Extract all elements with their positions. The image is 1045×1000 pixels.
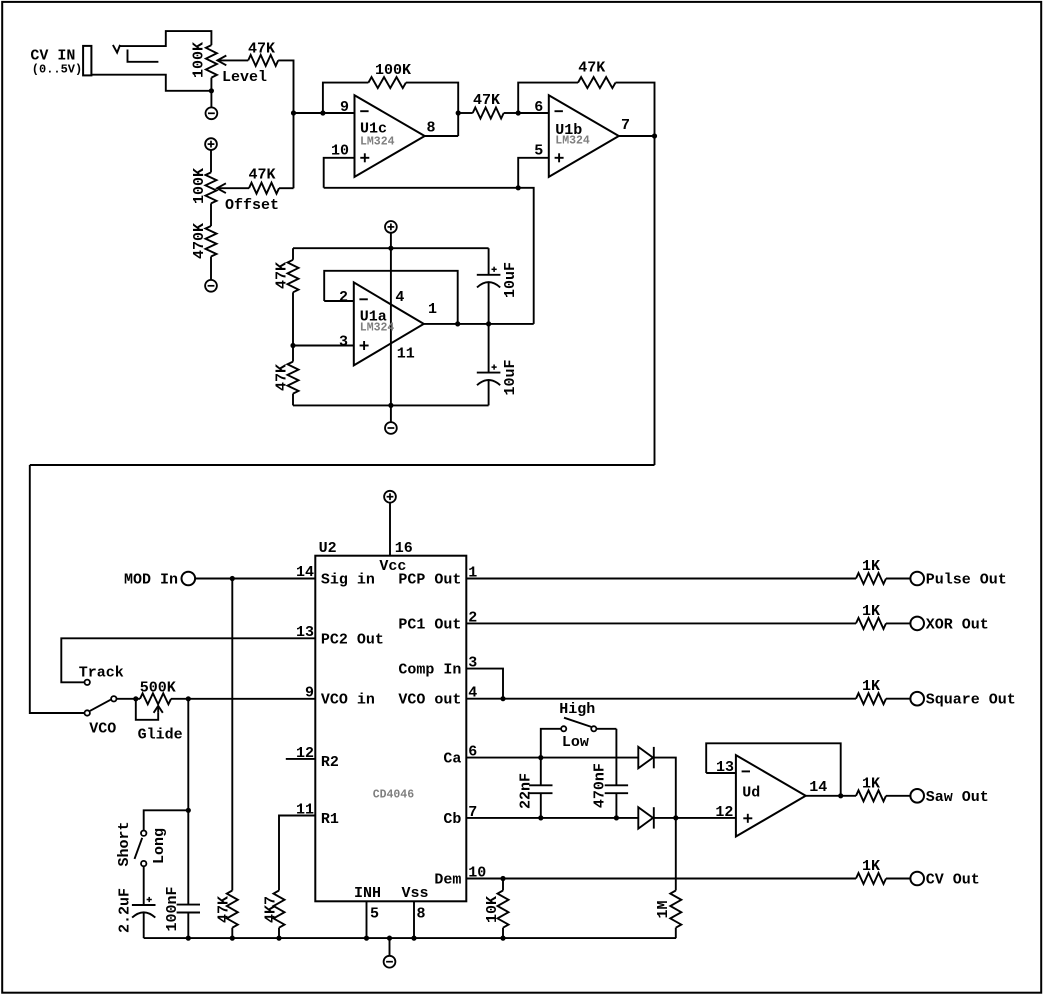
svg-text:MOD In: MOD In bbox=[124, 571, 178, 588]
svg-text:1K: 1K bbox=[862, 858, 880, 875]
terminal MOD In bbox=[124, 571, 195, 588]
junction node A (U1c input) bbox=[291, 110, 296, 115]
svg-text:CD4046: CD4046 bbox=[373, 789, 415, 802]
wire U1c +input bbox=[324, 158, 355, 188]
pin 16 Vcc bbox=[379, 503, 412, 575]
junction rail/2.2uF-100nF bbox=[186, 936, 191, 941]
wire Offset wiper bbox=[217, 187, 249, 189]
svg-text:Comp In: Comp In bbox=[398, 662, 461, 679]
resistor 1M bbox=[655, 891, 681, 939]
pin 10 Dem bbox=[434, 865, 486, 889]
svg-text:14: 14 bbox=[809, 779, 827, 796]
svg-text:4: 4 bbox=[395, 289, 404, 306]
junction +input bus bbox=[516, 185, 521, 190]
wire feedback horizontal bbox=[30, 464, 655, 466]
terminal Pulse Out bbox=[910, 572, 1006, 589]
wire +input bus bbox=[324, 188, 534, 324]
junction Cb / 470nF bbox=[614, 815, 619, 820]
resistor 1K (Saw) bbox=[856, 775, 886, 801]
IC U2 CD4046 body bbox=[315, 540, 466, 901]
wire +V to Offset pot bbox=[210, 150, 212, 172]
svg-text:500K: 500K bbox=[140, 680, 176, 697]
svg-text:47K: 47K bbox=[248, 167, 275, 184]
junction Level pot bottom bbox=[209, 88, 214, 93]
junction top rail / Vcc pin bbox=[388, 246, 393, 251]
junction rail/pin5 bbox=[364, 936, 369, 941]
terminal Saw Out bbox=[910, 789, 988, 806]
wire D1 cathode down bbox=[654, 758, 676, 818]
svg-text:4K7: 4K7 bbox=[263, 896, 280, 923]
potentiometer Glide 500K bbox=[136, 680, 183, 744]
wire Glide node down bbox=[187, 699, 189, 811]
wire U1c output bbox=[425, 135, 459, 137]
switch S1 Track/VCO bbox=[79, 665, 124, 738]
junction U1c output / 47K bbox=[456, 110, 461, 115]
svg-text:R2: R2 bbox=[321, 754, 339, 771]
svg-text:PC1 Out: PC1 Out bbox=[398, 616, 461, 633]
resistor 47K (upper divider) bbox=[274, 260, 299, 292]
wire top rail bbox=[293, 247, 489, 249]
switch S2 High/Low bbox=[541, 701, 617, 758]
wire to Short/Long switch bbox=[144, 810, 189, 830]
junction diode node bbox=[673, 815, 678, 820]
wire Level wiper bbox=[217, 59, 248, 61]
svg-text:Ud: Ud bbox=[742, 784, 760, 801]
wire Long to 2.2uF bbox=[143, 866, 145, 905]
junction divider midpoint bbox=[290, 343, 295, 348]
wire 1K to Pulse terminal bbox=[886, 578, 910, 580]
wire 47K to node column bbox=[278, 60, 293, 188]
svg-text:Ca: Ca bbox=[443, 751, 461, 768]
wire Ud -input bbox=[706, 772, 736, 774]
svg-text:Long: Long bbox=[151, 828, 168, 864]
junction U1b output node bbox=[652, 133, 657, 138]
terminal CV Out bbox=[910, 872, 979, 889]
svg-text:Glide: Glide bbox=[138, 727, 183, 744]
wire 1K to Saw terminal bbox=[886, 795, 910, 797]
svg-text:2.2uF: 2.2uF bbox=[117, 888, 134, 933]
svg-text:Sig in: Sig in bbox=[321, 572, 375, 589]
terminal Square Out bbox=[910, 692, 1015, 709]
junction Ud output bbox=[838, 793, 843, 798]
wire divider mid bbox=[292, 292, 294, 361]
wire U1b feedback right bbox=[616, 83, 655, 136]
wire left rail upper bbox=[292, 248, 294, 260]
svg-text:5: 5 bbox=[370, 906, 379, 923]
power +V (Offset) bbox=[205, 138, 217, 150]
resistor 47K (interstage) bbox=[458, 92, 518, 119]
wire Ud output bbox=[806, 795, 856, 797]
svg-text:7: 7 bbox=[621, 117, 630, 134]
svg-text:PCP Out: PCP Out bbox=[398, 572, 461, 589]
svg-text:High: High bbox=[559, 701, 595, 718]
wire left rail lower bbox=[292, 394, 294, 406]
resistor 47K (Sig in pulldown) bbox=[216, 579, 238, 939]
diode D1 (Ca) bbox=[638, 747, 654, 768]
junction rail/ground stub bbox=[387, 936, 392, 941]
svg-text:LM324: LM324 bbox=[360, 136, 395, 149]
svg-text:1K: 1K bbox=[862, 558, 880, 575]
svg-text:LM324: LM324 bbox=[360, 322, 395, 335]
resistor 1K (Pulse) bbox=[856, 558, 886, 584]
svg-text:VCO in: VCO in bbox=[321, 692, 375, 709]
pin 7 Cb bbox=[443, 804, 477, 828]
svg-text:Square Out: Square Out bbox=[926, 692, 1016, 709]
svg-text:10uF: 10uF bbox=[502, 359, 519, 395]
svg-text:47K: 47K bbox=[216, 896, 233, 923]
capacitor 100nF bbox=[164, 810, 200, 938]
junction cap tap on output bbox=[486, 321, 491, 326]
capacitor 470nF bbox=[591, 729, 628, 818]
svg-text:Level: Level bbox=[222, 69, 267, 86]
pin 6 Ca bbox=[443, 744, 477, 768]
svg-text:100K: 100K bbox=[191, 168, 208, 204]
jack J1 tip spring bbox=[128, 50, 159, 62]
wire U1b output down bbox=[654, 136, 656, 465]
svg-text:R1: R1 bbox=[321, 811, 339, 828]
ground symbol (Level) bbox=[206, 107, 218, 119]
pin 8 Vss bbox=[402, 885, 429, 938]
svg-text:12: 12 bbox=[715, 804, 733, 821]
capacitor 22nF bbox=[518, 758, 553, 818]
terminal XOR Out bbox=[910, 616, 988, 633]
junction 100nF top bbox=[186, 808, 191, 813]
resistor 100K (U1c feedback) bbox=[368, 62, 411, 88]
resistor 10K bbox=[484, 879, 509, 939]
wire Glide to pin 9 bbox=[171, 698, 315, 700]
svg-text:INH: INH bbox=[354, 885, 381, 902]
resistor 47K (Offset) bbox=[248, 167, 279, 194]
svg-text:10uF: 10uF bbox=[502, 262, 519, 298]
wire pin 10 Dem (CV Out) bbox=[466, 878, 856, 880]
wire +V to rail bbox=[390, 233, 392, 248]
wire U1a output bus bbox=[424, 323, 534, 325]
wire diode node down to 1M bbox=[675, 818, 677, 891]
wire pin 7 Cb bbox=[466, 817, 638, 819]
wire U1b +input bbox=[518, 158, 549, 188]
wire 1K to XOR terminal bbox=[886, 622, 910, 624]
resistor 47K (U1b feedback) bbox=[578, 60, 616, 88]
svg-text:CV Out: CV Out bbox=[926, 872, 980, 889]
svg-text:Dem: Dem bbox=[434, 872, 461, 889]
svg-text:Pulse Out: Pulse Out bbox=[926, 572, 1007, 589]
power +V (U2) bbox=[384, 491, 396, 503]
wire U1b inverting input bbox=[518, 112, 549, 114]
wire U1b feedback left bbox=[518, 83, 578, 113]
svg-text:6: 6 bbox=[534, 99, 543, 116]
pin 13 PC2 Out bbox=[296, 624, 384, 648]
pin 9 VCO in bbox=[305, 685, 375, 709]
wire node to U1c inverting input bbox=[294, 112, 355, 114]
junction rail/pin8 bbox=[411, 936, 416, 941]
svg-text:9: 9 bbox=[340, 99, 349, 116]
capacitor C2 10uF (lower) bbox=[477, 324, 519, 406]
pin 4 VCO out bbox=[398, 685, 477, 709]
wire 1K to Square terminal bbox=[886, 698, 910, 700]
svg-text:100K: 100K bbox=[190, 42, 207, 78]
pin 11 R1 bbox=[296, 802, 339, 829]
svg-text:Cb: Cb bbox=[443, 811, 461, 828]
junction Cb / 22nF bbox=[538, 815, 543, 820]
wire Vss stub bbox=[390, 405, 392, 422]
jack J1 sleeve bbox=[83, 46, 91, 76]
pin 12 R2 stub bbox=[286, 745, 339, 771]
junction U1c feedback tap bbox=[320, 110, 325, 115]
junction U1b inverting node bbox=[516, 110, 521, 115]
svg-text:1K: 1K bbox=[862, 603, 880, 620]
wire pin 2 (XOR Out) bbox=[466, 622, 856, 624]
wire 470K to ground bbox=[210, 257, 212, 280]
svg-text:Saw Out: Saw Out bbox=[926, 789, 989, 806]
svg-text:47K: 47K bbox=[473, 92, 500, 109]
svg-text:Short: Short bbox=[116, 821, 133, 866]
wire 1K to CV terminal bbox=[886, 878, 910, 880]
input label CV IN bbox=[30, 48, 82, 77]
wire Ud feedback bbox=[706, 743, 841, 796]
svg-text:14: 14 bbox=[296, 564, 314, 581]
ground symbol (U1a) bbox=[385, 422, 397, 434]
svg-text:1M: 1M bbox=[655, 900, 672, 918]
junction bottom rail / Vss pin bbox=[388, 403, 393, 408]
svg-text:(0..5V): (0..5V) bbox=[32, 63, 82, 77]
wire rail to ground symbol bbox=[389, 938, 391, 956]
svg-text:470K: 470K bbox=[191, 223, 208, 259]
junction Glide left bbox=[133, 696, 138, 701]
junction Glide right node bbox=[186, 696, 191, 701]
wire center power column bbox=[390, 248, 392, 405]
svg-text:100nF: 100nF bbox=[164, 886, 181, 931]
svg-text:VCO: VCO bbox=[89, 721, 116, 738]
svg-text:10K: 10K bbox=[484, 896, 501, 923]
junction feedback tap on output bbox=[455, 321, 460, 326]
svg-text:1K: 1K bbox=[862, 775, 880, 792]
wire U1a -input bbox=[324, 300, 354, 302]
wire pin 13 to Track bbox=[61, 638, 315, 682]
wire pin 4 (Square Out) bbox=[466, 698, 856, 700]
svg-text:Track: Track bbox=[79, 665, 124, 682]
junction rail/4K7 bbox=[276, 936, 281, 941]
pin 3 Comp In bbox=[398, 655, 477, 679]
wire to ground bbox=[210, 91, 212, 108]
svg-text:VCO out: VCO out bbox=[398, 692, 461, 709]
resistor 470K bbox=[191, 223, 217, 259]
svg-text:47K: 47K bbox=[248, 40, 275, 57]
junction Dem / 10K bbox=[500, 876, 505, 881]
pin 5 INH bbox=[354, 885, 381, 938]
svg-text:8: 8 bbox=[427, 119, 436, 136]
wire U1a feedback bbox=[324, 271, 458, 324]
junction MOD In node bbox=[230, 576, 235, 581]
pin 2 PC1 Out bbox=[398, 609, 477, 633]
resistor 1K (Square) bbox=[856, 678, 886, 704]
svg-text:47K: 47K bbox=[578, 60, 605, 77]
wire ground rail bbox=[144, 937, 676, 939]
svg-text:1K: 1K bbox=[862, 678, 880, 695]
svg-text:8: 8 bbox=[417, 906, 426, 923]
capacitor 2.2uF bbox=[117, 888, 156, 938]
junction rail/47K bbox=[230, 936, 235, 941]
wire feedback left drop bbox=[30, 465, 84, 713]
svg-text:2: 2 bbox=[339, 289, 348, 306]
svg-text:47K: 47K bbox=[274, 364, 291, 391]
svg-text:1: 1 bbox=[428, 301, 437, 318]
svg-text:47K: 47K bbox=[274, 262, 291, 289]
wire pin 11 R1 to 4K7 bbox=[279, 816, 315, 891]
junction rail/10K bbox=[500, 936, 505, 941]
pin 1 PCP Out bbox=[398, 565, 477, 589]
op-amp U1a bbox=[339, 282, 437, 365]
wire jack tip to node bbox=[91, 75, 211, 91]
svg-text:Low: Low bbox=[562, 734, 589, 751]
svg-text:11: 11 bbox=[397, 345, 415, 362]
resistor 1K (CV) bbox=[856, 858, 886, 884]
switch S3 Short/Long bbox=[116, 821, 168, 866]
wire U1c feedback right bbox=[406, 83, 458, 136]
wire MOD In to pin 14 bbox=[195, 578, 315, 580]
wire bottom rail bbox=[293, 404, 489, 406]
diode D2 (Cb) bbox=[638, 807, 654, 828]
svg-text:16: 16 bbox=[395, 540, 413, 557]
op-amp U1b bbox=[534, 95, 630, 177]
wire jack switch to Level pot top bbox=[120, 31, 211, 46]
junction pin4 node bbox=[500, 696, 505, 701]
wire switch common to Glide bbox=[117, 698, 141, 700]
ground symbol (rail) bbox=[384, 956, 396, 968]
ground symbol (470K) bbox=[205, 280, 217, 292]
resistor 1K (XOR) bbox=[856, 603, 886, 629]
wire D2 cathode to Ud +input bbox=[654, 817, 736, 819]
junction Ca / 22nF bbox=[538, 755, 543, 760]
wire 47K offset to node bbox=[279, 187, 294, 189]
jack J1 switch tick bbox=[113, 45, 120, 53]
wire U1b output bbox=[619, 135, 655, 137]
svg-text:Vss: Vss bbox=[402, 885, 429, 902]
potentiometer Offset 100K bbox=[191, 168, 279, 214]
potentiometer Level 100K bbox=[190, 42, 267, 91]
wire pin 1 (Pulse Out) bbox=[466, 578, 856, 580]
svg-text:3: 3 bbox=[339, 334, 348, 351]
pin 14 Sig in bbox=[296, 564, 375, 589]
op-amp U1c bbox=[331, 95, 436, 177]
svg-text:22nF: 22nF bbox=[518, 773, 535, 809]
wire U1a +input bbox=[293, 345, 354, 347]
resistor 4K7 bbox=[263, 891, 285, 939]
resistor 47K (Level) bbox=[248, 40, 278, 66]
svg-text:LM324: LM324 bbox=[555, 135, 590, 148]
op-amp Ud bbox=[715, 755, 827, 836]
svg-text:XOR Out: XOR Out bbox=[926, 616, 989, 633]
wire pin 3 to pin 4 bbox=[466, 669, 503, 699]
resistor 47K (lower divider) bbox=[274, 362, 299, 394]
svg-text:Offset: Offset bbox=[225, 197, 279, 214]
svg-text:100K: 100K bbox=[375, 62, 411, 79]
wire U1c feedback left bbox=[323, 83, 369, 113]
svg-text:470nF: 470nF bbox=[591, 763, 608, 808]
wire Offset pot to 470K bbox=[210, 203, 212, 226]
capacitor C1 10uF (upper) bbox=[477, 248, 519, 324]
svg-text:U2: U2 bbox=[319, 540, 337, 557]
power +V (U1a) bbox=[385, 221, 397, 233]
wire pin 6 Ca bbox=[466, 757, 638, 759]
svg-text:PC2 Out: PC2 Out bbox=[321, 631, 384, 648]
